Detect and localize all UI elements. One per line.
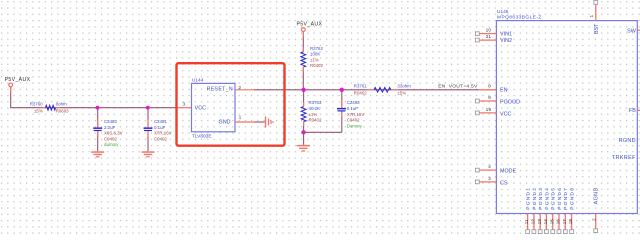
pin 15 PGND5 <box>549 187 556 234</box>
svg-text:VIN1: VIN1 <box>500 32 512 38</box>
svg-text:VCC: VCC <box>195 106 206 112</box>
svg-text:21: 21 <box>486 34 492 40</box>
svg-text:0ohm: 0ohm <box>56 101 67 106</box>
svg-text:RGND: RGND <box>619 138 636 144</box>
pin 13 PGND3 <box>537 187 544 234</box>
svg-text:U145: U145 <box>497 9 509 15</box>
svg-text:TRKREF: TRKREF <box>612 155 636 161</box>
svg-text:EN VOUT=4.5V: EN VOUT=4.5V <box>438 84 478 90</box>
junction at C2482 <box>96 106 100 110</box>
svg-text:2.2uF: 2.2uF <box>104 125 116 130</box>
svg-text:17: 17 <box>562 219 568 225</box>
svg-text:8: 8 <box>488 83 491 89</box>
svg-text:AGND: AGND <box>594 187 600 204</box>
pin stub U145 EN pin 8 <box>479 89 497 91</box>
junction R3763 bottom / ground <box>301 130 305 134</box>
resistor R3760 <box>30 101 69 113</box>
capacitor C2491 <box>144 108 172 152</box>
power terminal circle (middle P5V_AUX) <box>301 28 305 32</box>
svg-text:PGND2: PGND2 <box>532 187 538 210</box>
pin 3 CS <box>475 176 496 184</box>
svg-text:±5%: ±5% <box>34 108 43 113</box>
svg-text:PGND1: PGND1 <box>526 187 532 210</box>
pin 14 PGND4 <box>543 187 550 234</box>
pin SW stub <box>637 29 640 31</box>
pin 10 VIN1 <box>475 28 496 36</box>
svg-text:R3763: R3763 <box>309 100 322 105</box>
svg-text:MODE: MODE <box>500 169 517 175</box>
junction C2493 top <box>340 88 344 92</box>
svg-text:10: 10 <box>486 28 492 34</box>
svg-text:U144: U144 <box>192 77 204 83</box>
pin 21 VIN2 <box>475 34 496 42</box>
supervisor IC U144 TLV803E <box>192 77 236 139</box>
svg-text:Dummy: Dummy <box>347 124 363 129</box>
pin 9 PGOOD <box>475 95 496 103</box>
svg-text:11: 11 <box>524 219 530 224</box>
svg-text:±5%: ±5% <box>397 90 406 95</box>
svg-text:19: 19 <box>486 107 492 113</box>
svg-text:PGND6: PGND6 <box>557 187 563 210</box>
pin 17 PGND7 <box>562 187 569 234</box>
svg-text:C0402: C0402 <box>104 136 117 141</box>
svg-text:FB: FB <box>629 108 636 114</box>
svg-text:33ohm: 33ohm <box>397 84 411 89</box>
junction R3762 / RESET_N <box>301 88 305 92</box>
svg-text:VCC: VCC <box>500 112 511 118</box>
pin 16 PGND6 <box>556 187 563 234</box>
wire P5V_AUX down to R3762 <box>302 32 304 53</box>
resistor R3763 <box>301 90 322 133</box>
ground right-facing at U144 GND <box>265 116 274 127</box>
pin FB stub <box>637 109 640 111</box>
svg-text:9: 9 <box>488 95 491 101</box>
capacitor C2482 <box>93 108 122 152</box>
svg-text:PGOOD: PGOOD <box>500 99 520 105</box>
wire GND pin 1 to ground <box>254 121 265 123</box>
wire P5V_AUX horizontal to U144 VCC <box>10 107 176 109</box>
svg-text:3: 3 <box>183 101 186 107</box>
pin 12 PGND2 <box>531 187 538 234</box>
svg-text:TLV803E: TLV803E <box>192 133 212 139</box>
pin 1 BST top <box>589 1 598 21</box>
svg-text:PGND5: PGND5 <box>551 187 557 210</box>
svg-text:16: 16 <box>556 219 562 225</box>
svg-text:13: 13 <box>537 219 543 225</box>
svg-text:40.2K: 40.2K <box>309 106 321 111</box>
svg-text:CS: CS <box>500 181 508 187</box>
svg-text:EN: EN <box>500 87 508 93</box>
ground below C2491 <box>142 151 155 157</box>
svg-text:1: 1 <box>589 15 595 18</box>
pin 18 PGND8 <box>568 187 575 234</box>
wire RESET_N to EN <box>254 89 479 91</box>
svg-text:14: 14 <box>543 219 549 225</box>
svg-text:0.1uF: 0.1uF <box>154 125 166 130</box>
regulator IC U145 MPQ8633BGLE-Z <box>496 9 637 214</box>
wire P5V_AUX down (left) <box>10 87 12 108</box>
pin 2 AGND <box>591 214 597 233</box>
svg-text:0.1uF: 0.1uF <box>347 106 359 111</box>
svg-text:C2493: C2493 <box>347 100 360 105</box>
svg-text:C0402: C0402 <box>347 118 360 123</box>
ground below R3763 junction <box>297 132 310 151</box>
svg-text:2: 2 <box>591 218 597 221</box>
svg-text:R0603: R0603 <box>56 108 69 113</box>
svg-text:±1%: ±1% <box>310 57 319 62</box>
svg-text:12: 12 <box>531 219 537 225</box>
pin 19 VCC <box>475 107 496 115</box>
resistor R3761 <box>354 84 411 96</box>
svg-text:R0402: R0402 <box>309 118 322 123</box>
junction at C2491 <box>146 106 150 110</box>
svg-text:R3762: R3762 <box>310 46 323 51</box>
svg-text:100K: 100K <box>310 52 320 57</box>
svg-text:C0402: C0402 <box>154 136 167 141</box>
pin stub U144 VCC pin 3 <box>176 107 192 109</box>
svg-text:3: 3 <box>488 176 491 182</box>
svg-text:X7R,16V: X7R,16V <box>347 112 365 117</box>
svg-text:R0402: R0402 <box>310 63 323 68</box>
wire bottom horizontal R3763 to C2493 <box>304 131 342 133</box>
svg-text:PGND3: PGND3 <box>538 187 544 210</box>
pin 4 MODE <box>475 164 496 172</box>
svg-text:2: 2 <box>238 85 241 91</box>
svg-text:BST: BST <box>594 23 600 34</box>
svg-text:1: 1 <box>239 115 242 121</box>
svg-text:P5V_AUX: P5V_AUX <box>297 22 323 28</box>
svg-text:PGND7: PGND7 <box>563 187 569 210</box>
svg-text:15: 15 <box>549 219 555 225</box>
svg-text:RESET_N: RESET_N <box>207 87 233 93</box>
svg-text:GND: GND <box>219 120 231 126</box>
red highlight box <box>177 63 285 146</box>
resistor R3762 <box>301 46 324 68</box>
svg-text:4: 4 <box>488 164 491 170</box>
svg-text:MPQ8633BGLE-Z: MPQ8633BGLE-Z <box>497 14 542 20</box>
svg-text:R3761: R3761 <box>354 84 367 89</box>
ground below C2482 <box>91 151 104 157</box>
svg-text:C2482: C2482 <box>104 119 117 124</box>
power terminal circle (left P5V_AUX) <box>9 83 13 87</box>
svg-text:P5V_AUX: P5V_AUX <box>5 77 31 83</box>
svg-text:R3760: R3760 <box>30 102 43 107</box>
svg-text:X7R,16V: X7R,16V <box>154 131 172 136</box>
svg-text:SW: SW <box>627 29 637 35</box>
svg-text:VIN2: VIN2 <box>500 38 512 44</box>
capacitor C2493 <box>337 90 364 133</box>
wire R3762 to RESET_N net <box>302 67 304 90</box>
pin 11 PGND1 <box>524 187 531 234</box>
pin 2 RESET_N stub <box>235 89 254 91</box>
svg-text:R0402: R0402 <box>354 90 367 95</box>
svg-text:X6S,6.3V: X6S,6.3V <box>104 131 123 136</box>
svg-text:±1%: ±1% <box>309 112 318 117</box>
svg-text:PGND4: PGND4 <box>544 187 550 210</box>
svg-text:dummy: dummy <box>104 142 119 147</box>
svg-text:C2491: C2491 <box>154 119 167 124</box>
pin 1 GND stub <box>235 121 254 123</box>
svg-text:18: 18 <box>568 219 574 225</box>
svg-text:PGND8: PGND8 <box>570 187 576 210</box>
